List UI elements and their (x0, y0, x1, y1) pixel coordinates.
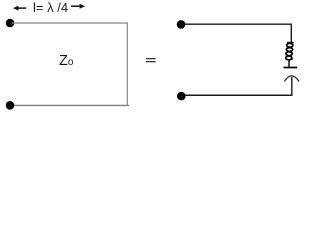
wire: transmission line top conductor (12, 22, 127, 24)
wire: lead from curved plate to bottom rail (291, 77, 293, 95)
wire: right circuit bottom rail (183, 94, 293, 96)
wire: lead from coil to capacitor plate (288, 60, 290, 68)
wire: transmission line shorted right end (126, 22, 128, 105)
node: top-left terminal dot (6, 19, 15, 28)
capacitor C: flat top plate (284, 67, 298, 69)
equals sign (146, 58, 156, 62)
node: top-right terminal dot (177, 20, 186, 29)
right dimension arrow (71, 4, 85, 9)
capacitor C: curved bottom plate (284, 76, 299, 82)
node: bottom-left terminal dot (6, 101, 15, 110)
wire: right circuit top rail (183, 24, 291, 42)
svg-text:Zo: Zo (59, 53, 74, 69)
node: bottom-right terminal dot (177, 92, 186, 101)
svg-text:l= λ /4: l= λ /4 (33, 0, 68, 15)
wire: transmission line bottom conductor (12, 104, 129, 106)
inductor L (coil) (286, 43, 294, 60)
left dimension arrow (13, 6, 26, 11)
